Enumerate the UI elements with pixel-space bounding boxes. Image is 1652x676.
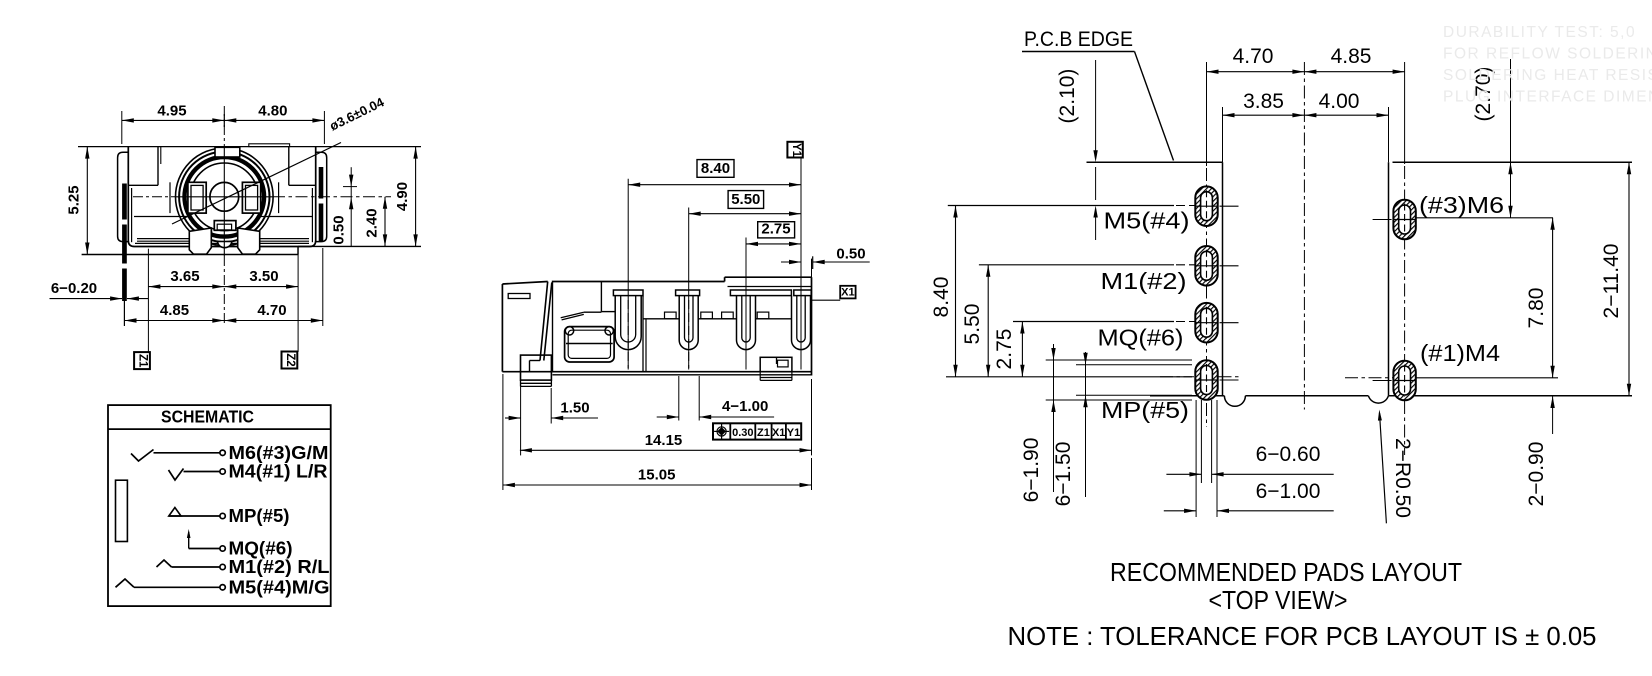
contact MP(#5) xyxy=(169,506,290,526)
pad (#1)M4 xyxy=(1373,361,1416,401)
jack plug symbol xyxy=(116,480,128,541)
pin #4 (sleeve) side xyxy=(613,290,643,370)
faint clipped notes text xyxy=(1443,24,1652,106)
dim 6-0.20 xyxy=(50,280,149,301)
dim 0.50 / 2.40 / 4.90 right xyxy=(331,147,418,247)
dim 14.15 xyxy=(520,379,812,455)
dims 3.65 / 3.50 / 4.85 / 4.70 xyxy=(125,247,323,352)
dim 6-1.50 xyxy=(1052,352,1192,506)
svg-text:3.85: 3.85 xyxy=(1243,90,1284,113)
svg-text:4.00: 4.00 xyxy=(1319,90,1360,113)
svg-text:4.90: 4.90 xyxy=(394,182,411,211)
svg-text:(#3)M6: (#3)M6 xyxy=(1419,192,1504,218)
svg-text:4.70: 4.70 xyxy=(1233,45,1274,68)
svg-text:MP(#5): MP(#5) xyxy=(229,506,290,526)
svg-text:2.75: 2.75 xyxy=(993,329,1016,370)
dim 2.75 rows xyxy=(993,322,1025,377)
pin #2 side xyxy=(676,290,700,370)
P.C.B EDGE label + leader xyxy=(1022,28,1174,161)
contact M5(#4)M/G xyxy=(116,578,330,598)
pad MP(#5) xyxy=(1195,360,1238,400)
dim 4.70 / 4.85 xyxy=(1207,45,1405,166)
svg-text:15.05: 15.05 xyxy=(638,467,676,484)
pcb edge line xyxy=(1087,161,1633,163)
ext line Y1 to part xyxy=(800,158,802,369)
svg-text:RECOMMENDED PADS LAYOUT: RECOMMENDED PADS LAYOUT xyxy=(1110,557,1462,587)
connector front view xyxy=(78,106,421,326)
position tolerance frame xyxy=(713,423,801,439)
svg-text:SCHEMATIC: SCHEMATIC xyxy=(161,407,254,427)
svg-text:Z1: Z1 xyxy=(137,354,149,368)
pad M1(#2) xyxy=(1195,246,1238,286)
pad column centerlines xyxy=(1206,168,1208,427)
svg-text:P.C.B EDGE: P.C.B EDGE xyxy=(1024,28,1133,51)
svg-text:0.50: 0.50 xyxy=(331,215,348,244)
svg-text:6−1.90: 6−1.90 xyxy=(1020,438,1043,503)
svg-text:<TOP VIEW>: <TOP VIEW> xyxy=(1209,585,1348,615)
row line M1(#2) xyxy=(979,265,1196,294)
svg-text:4.85: 4.85 xyxy=(160,302,189,319)
svg-text:1.50: 1.50 xyxy=(560,400,589,417)
svg-text:0.30: 0.30 xyxy=(732,427,753,439)
M4/MP row dashdot through pads xyxy=(1160,376,1194,378)
svg-text:5.25: 5.25 xyxy=(66,185,83,214)
svg-text:NOTE : TOLERANCE FOR PCB: NOTE : TOLERANCE FOR PCB LAYOUT IS ± 0.0… xyxy=(1008,621,1597,651)
svg-text:X1: X1 xyxy=(772,427,785,439)
svg-text:2−11.40: 2−11.40 xyxy=(1600,244,1623,319)
svg-text:FOR REFLOW SOLDERIN: FOR REFLOW SOLDERIN xyxy=(1443,46,1652,63)
datum Y1 xyxy=(787,142,802,158)
svg-text:6−0.60: 6−0.60 xyxy=(1256,443,1321,466)
datum X1 xyxy=(812,286,856,300)
dim 8.40 rows xyxy=(930,206,958,377)
dim 2-0.90 xyxy=(1525,396,1555,507)
dia 3.6 leader xyxy=(172,94,387,224)
centerline vertical xyxy=(1303,62,1305,410)
svg-text:5.50: 5.50 xyxy=(731,191,760,208)
svg-text:M6(#3)G/M: M6(#3)G/M xyxy=(229,443,329,463)
row line (#3)M6 xyxy=(1416,192,1554,218)
svg-text:6−1.00: 6−1.00 xyxy=(1256,480,1321,503)
datum Z1 xyxy=(134,352,150,369)
svg-text:7.80: 7.80 xyxy=(1525,288,1548,329)
svg-text:4−1.00: 4−1.00 xyxy=(722,398,768,415)
row line M5(#4) xyxy=(948,206,1196,234)
dim (2.10) xyxy=(1056,60,1098,240)
pin #5 side xyxy=(792,290,812,370)
dim (2.70) xyxy=(1472,59,1513,218)
svg-text:Y1: Y1 xyxy=(787,427,800,439)
svg-text:PLUG INTERFACE DIMEN: PLUG INTERFACE DIMEN xyxy=(1443,89,1652,106)
pad (#3)M6 xyxy=(1373,200,1416,240)
svg-text:X1: X1 xyxy=(841,286,854,298)
svg-text:0.50: 0.50 xyxy=(836,246,865,263)
svg-text:MP(#5): MP(#5) xyxy=(1101,397,1189,423)
dim 6-0.60 xyxy=(1166,400,1333,483)
dim 2-11.40 xyxy=(1600,162,1631,395)
svg-text:4.95: 4.95 xyxy=(157,103,186,120)
svg-text:DURABILITY TEST: 5,0: DURABILITY TEST: 5,0 xyxy=(1443,24,1636,41)
dim 5.50 rows xyxy=(961,265,990,377)
leader 2-R0.50 xyxy=(1378,410,1414,524)
schematic box xyxy=(108,405,331,606)
row line MP(#5) xyxy=(946,377,1242,423)
dim 6-1.00 xyxy=(1164,400,1334,517)
svg-text:MQ(#6): MQ(#6) xyxy=(229,539,293,559)
svg-text:SOLDERING HEAT RESIS: SOLDERING HEAT RESIS xyxy=(1443,67,1652,84)
connector outline on pcb xyxy=(1150,162,1632,406)
svg-text:8.40: 8.40 xyxy=(701,160,730,177)
svg-text:3.50: 3.50 xyxy=(249,268,278,285)
dim 1.50 xyxy=(505,383,598,455)
contact M4(#1) L/R xyxy=(169,462,328,482)
svg-text:4.85: 4.85 xyxy=(1331,45,1372,68)
svg-text:M5(#4)M/G: M5(#4)M/G xyxy=(229,578,330,598)
dim 6-1.90 xyxy=(1020,344,1192,502)
svg-text:2.75: 2.75 xyxy=(761,221,790,238)
contact MQ(#6) xyxy=(187,529,293,559)
datum Z2 xyxy=(282,352,298,369)
svg-text:M1(#2): M1(#2) xyxy=(1101,268,1187,294)
svg-text:Z1: Z1 xyxy=(757,427,770,439)
dim 0.50 top right xyxy=(781,246,870,278)
svg-text:MQ(#6): MQ(#6) xyxy=(1098,325,1184,351)
svg-text:5.50: 5.50 xyxy=(961,304,984,345)
svg-text:2.40: 2.40 xyxy=(364,208,381,237)
row line MQ(#6) xyxy=(1013,322,1196,351)
svg-text:M5(#4): M5(#4) xyxy=(1104,208,1190,234)
dim 4.95 / 4.80 top xyxy=(122,103,325,145)
svg-text:(#1)M4: (#1)M4 xyxy=(1420,340,1500,366)
svg-text:M4(#1) L/R: M4(#1) L/R xyxy=(229,462,328,482)
dim 4-1.00 xyxy=(657,376,774,421)
pin #6 side xyxy=(730,290,791,370)
dim 15.05 xyxy=(503,374,812,490)
dim 2.75 boxed xyxy=(746,221,801,369)
svg-text:14.15: 14.15 xyxy=(645,432,683,449)
svg-text:4.70: 4.70 xyxy=(257,302,286,319)
contact M6(#3)G/M xyxy=(131,443,329,463)
dim 8.40 boxed xyxy=(628,160,801,368)
svg-text:M1(#2) R/L: M1(#2) R/L xyxy=(229,557,330,577)
row line (#1)M4 xyxy=(1345,340,1558,378)
svg-text:2−R0.50: 2−R0.50 xyxy=(1391,438,1414,518)
connector side view body xyxy=(502,277,811,386)
svg-text:(2.10): (2.10) xyxy=(1056,69,1079,124)
contact M1(#2) R/L xyxy=(157,557,330,577)
svg-text:2−0.90: 2−0.90 xyxy=(1525,442,1548,507)
dim 5.50 boxed xyxy=(689,191,801,368)
svg-text:4.80: 4.80 xyxy=(258,103,287,120)
svg-text:Y1: Y1 xyxy=(790,143,802,158)
dim 7.80 xyxy=(1525,218,1555,378)
svg-text:3.65: 3.65 xyxy=(170,268,199,285)
dim 5.25 left xyxy=(66,147,90,255)
svg-text:6−0.20: 6−0.20 xyxy=(51,280,97,297)
dim 3.85 / 4.00 xyxy=(1223,90,1389,162)
svg-text:8.40: 8.40 xyxy=(930,277,953,318)
svg-text:Z2: Z2 xyxy=(284,353,296,366)
svg-text:6−1.50: 6−1.50 xyxy=(1052,442,1075,507)
pad M5(#4) xyxy=(1195,186,1238,226)
pad MQ(#6) xyxy=(1195,303,1238,343)
